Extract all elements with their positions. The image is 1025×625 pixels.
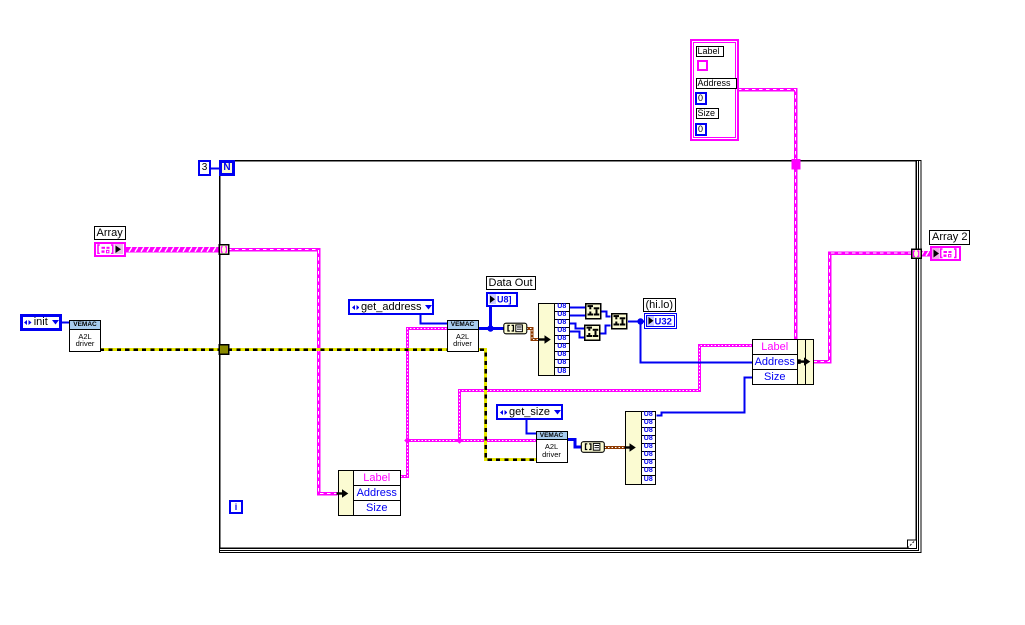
VEMAC A2L driver subVI 2 (get_address) [447, 320, 479, 352]
tunnel: error wire on left loop border [219, 345, 229, 354]
wire: unbundle u8 row2 to join1 [569, 315, 585, 317]
init enum constant [20, 314, 62, 331]
wire: get_size enum to VEMAC3 [527, 419, 537, 434]
junction dot string wire B [456, 437, 463, 444]
output arrow bundle by name [798, 357, 811, 365]
input arrow unbundle by name [337, 489, 349, 497]
wire: join1 out to join3 [601, 312, 611, 317]
tunnel: array input (auto-indexing) on left loop border [219, 245, 229, 255]
Array 2 indicator label [929, 230, 970, 245]
wire: unbundle u8 row4 to join2 [569, 332, 584, 338]
empty string constant [697, 60, 709, 72]
wire: array of clusters, right tunnel to Array 2 terminal [919, 251, 930, 256]
wire: Label string from unbundle up to VEMAC get_address [401, 329, 448, 477]
Data Out indicator terminal [486, 292, 518, 307]
get_size enum constant [496, 404, 563, 420]
Array 2 indicator terminal [930, 246, 961, 261]
loop N terminal [219, 160, 235, 176]
wire: U8 array VEMAC3 to array-to-cluster 2 [568, 440, 582, 448]
loop count constant 3 [198, 160, 211, 176]
array-to-cluster icon 1 [504, 323, 527, 334]
bundle by name node (Label/Address/Size) right [752, 339, 799, 386]
wire: join3 out to U32 indicator [628, 321, 644, 323]
wire: join2 out to join3 [600, 326, 611, 334]
(hi.lo) indicator label [643, 298, 677, 312]
wire: array of clusters, Array terminal to left tunnel [126, 247, 220, 252]
join numbers icon 1 [585, 303, 602, 320]
unbundle node 1 (9x U8) [538, 303, 555, 377]
wire: Label string branch to bundle node [460, 346, 753, 441]
label Address [696, 78, 737, 89]
tunnel: cluster constant on top loop border [792, 159, 801, 170]
join numbers icon 3 [611, 313, 628, 330]
numeric constant 0 [695, 123, 707, 136]
wire: unbundle u8 row1 to join1 [569, 307, 585, 309]
junction dot U8 array [487, 325, 493, 331]
input arrow unbundle 2 [625, 443, 636, 451]
tunnel: array output (auto-indexing) on right loop border [912, 249, 922, 258]
wire: numeric cluster array-to-cluster 2 to unbundle 2 [605, 446, 626, 449]
label Size [696, 108, 719, 119]
unbundle node 2 (9x U8) [625, 411, 642, 485]
join numbers icon 2 [584, 325, 601, 342]
wire: Label string branch to VEMAC get_size [408, 439, 537, 442]
wire: unbundle u8 row3 to join2 [569, 324, 584, 329]
cluster constant (Label/Address/Size) top right [690, 39, 739, 141]
get_address enum constant [348, 299, 435, 315]
junction dot string wire A [404, 437, 411, 444]
wire: numeric cluster array-to-cluster to unbundle [527, 329, 540, 340]
array-to-cluster icon 2 [581, 442, 604, 453]
label Label [696, 46, 724, 57]
loop iteration terminal i [229, 500, 243, 514]
wire: cluster from constant down to bundle node [738, 90, 796, 340]
wire: U8 array VEMAC2 to array-to-cluster [478, 327, 504, 330]
wire: init enum to VEMAC1 [61, 322, 70, 324]
VEMAC A2L driver subVI 3 (get_size) [536, 431, 568, 463]
wire: indexed cluster element, left tunnel to unbundle node [228, 250, 338, 494]
wire: error cluster through loop to VEMAC get_size [228, 350, 536, 460]
Data Out indicator label [486, 276, 536, 290]
wire: unbundle2 u8 row1 to bundle Size [657, 378, 753, 416]
numeric constant 0 [695, 92, 707, 105]
U32 indicator terminal [644, 313, 677, 329]
Array control terminal [94, 242, 126, 258]
wire: get_address enum to VEMAC2 [421, 313, 448, 324]
wire: cluster from bundle output up to right tunnel [814, 253, 914, 362]
input arrow unbundle 1 [539, 335, 551, 343]
wire: error cluster VEMAC1 to left tunnel [100, 348, 219, 351]
loop corner notch [907, 540, 916, 549]
wire: U32 branch down to bundle Address [641, 322, 753, 363]
Array control label [94, 226, 126, 240]
unbundle by name node (Label/Address/Size) bottom left [338, 470, 354, 517]
for-loop border [220, 161, 922, 553]
VEMAC A2L driver subVI 1 [69, 320, 101, 352]
junction dot U32 [637, 318, 643, 324]
wire: 3 to N [211, 168, 220, 170]
wire: U8 array Data Out terminal drop [489, 306, 492, 328]
